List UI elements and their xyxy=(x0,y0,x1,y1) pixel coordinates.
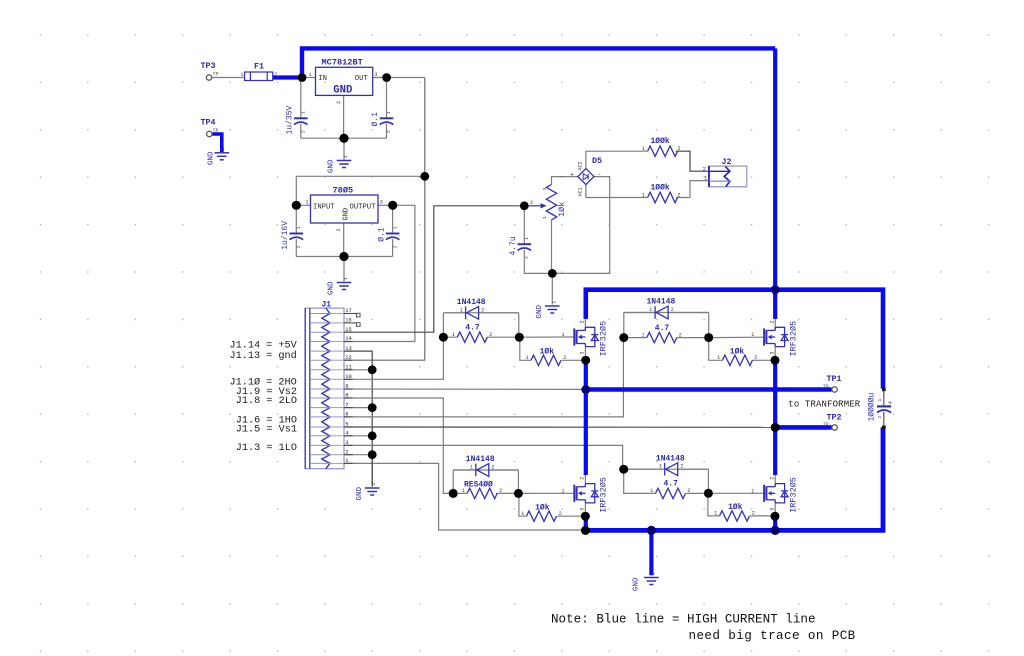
wire blue rail2 junction down to Q2 drain xyxy=(773,290,777,319)
svg-text:1: 1 xyxy=(877,399,883,402)
junction node J1 pin11 gnd xyxy=(368,365,377,374)
svg-text:1Øk: 1Øk xyxy=(728,503,743,512)
svg-text:TP1: TP1 xyxy=(827,374,842,384)
svg-text:1: 1 xyxy=(343,277,349,280)
svg-text:2: 2 xyxy=(392,245,398,248)
svg-text:12: 12 xyxy=(345,355,351,361)
wire lower-right network right vertical xyxy=(707,469,709,493)
wire lower-left network left vertical xyxy=(452,470,454,493)
connector J1 pin17 no-connect marker xyxy=(353,313,357,315)
note text xyxy=(551,613,856,644)
svg-text:10: 10 xyxy=(345,374,351,380)
svg-text:2: 2 xyxy=(481,307,484,313)
junction node MC7812 OUT / C2 xyxy=(382,73,391,82)
svg-text:14: 14 xyxy=(345,336,351,342)
resistor RES400 (lower-left) xyxy=(462,480,502,498)
wire 7805 GND pin2 xyxy=(343,223,345,257)
svg-text:1: 1 xyxy=(642,192,645,198)
wire J1 pin4 gnd stub xyxy=(344,435,372,437)
svg-text:1Øk: 1Øk xyxy=(535,503,550,512)
svg-text:1N4148: 1N4148 xyxy=(656,454,685,463)
wire C1 bottom leg xyxy=(300,124,302,138)
svg-text:1: 1 xyxy=(704,176,707,182)
svg-text:GND: GND xyxy=(633,577,641,591)
svg-text:2: 2 xyxy=(580,477,586,480)
junction node TP2 / Vs1 xyxy=(771,423,780,432)
diode D? 1N4148 (upper-right) xyxy=(647,298,676,319)
svg-text:2: 2 xyxy=(301,130,307,133)
svg-text:1: 1 xyxy=(306,200,309,206)
junction node 7805 input / C3 xyxy=(292,201,301,210)
svg-text:1: 1 xyxy=(343,155,349,158)
svg-text:2: 2 xyxy=(703,167,706,173)
svg-text:TP4: TP4 xyxy=(201,118,216,128)
junction node lower-left network right / Q3 gate xyxy=(514,489,523,498)
svg-text:3: 3 xyxy=(769,508,775,511)
wire lower-left network top rail xyxy=(453,469,518,471)
svg-text:1N4148: 1N4148 xyxy=(466,455,495,464)
transistor Q4 IRF3205 (lower-right) xyxy=(751,477,798,513)
resistor 10k (lower-left gate) xyxy=(521,503,562,521)
wire blue Q4 source to ground bus xyxy=(773,514,777,530)
svg-text:2: 2 xyxy=(386,130,392,133)
junction node J1 pin7 gnd xyxy=(368,403,377,412)
svg-text:2: 2 xyxy=(769,477,775,480)
wire J1 pin6 1HO to upper-right gate network xyxy=(344,340,623,417)
svg-text:17: 17 xyxy=(345,308,351,314)
svg-text:IN: IN xyxy=(318,75,327,83)
svg-text:2: 2 xyxy=(752,511,755,517)
potentiometer 10k xyxy=(529,184,567,219)
svg-text:J1.3 = 1LO: J1.3 = 1LO xyxy=(236,443,297,454)
svg-text:2: 2 xyxy=(524,256,530,259)
regulator U? MC7812BT xyxy=(309,58,378,105)
wire 100k R2 pin2 to J2 pin1 xyxy=(676,181,709,198)
svg-text:Note: Blue line = HIGH CURRENT: Note: Blue line = HIGH CURRENT line xyxy=(551,613,816,627)
svg-text:3: 3 xyxy=(375,72,378,78)
pin node 10000u cap pin2 xyxy=(882,426,886,430)
wire D5 minus vertex right then down to gnd node xyxy=(552,177,609,274)
svg-text:1: 1 xyxy=(542,216,548,219)
fuse F1 xyxy=(241,62,278,81)
svg-text:TP: TP xyxy=(823,422,829,428)
svg-text:1: 1 xyxy=(650,572,656,575)
junction node MC7812 gnd rail xyxy=(339,134,348,143)
svg-text:+: + xyxy=(888,400,892,408)
svg-text:2: 2 xyxy=(671,307,674,313)
connector J1 pin 13 xyxy=(310,346,353,352)
junction node lower-left network left xyxy=(449,489,458,498)
svg-text:2: 2 xyxy=(877,416,883,419)
svg-text:1: 1 xyxy=(371,483,377,486)
wire upper-left R 4.7 leads xyxy=(443,336,519,338)
connector J2 xyxy=(703,157,747,187)
wire blue ground bus stub down to power ground xyxy=(649,530,653,575)
wire lower-right network left vertical down to resistor xyxy=(624,469,656,493)
wire blue ground bus xyxy=(584,427,884,530)
wire Q2 source stub xyxy=(774,347,776,358)
wire blue TP4 to ground xyxy=(212,134,222,152)
wire J1 pin2 gnd stub xyxy=(344,454,372,456)
svg-text:+: + xyxy=(570,172,574,179)
svg-text:15: 15 xyxy=(345,327,351,333)
wire blue left bridge midpoint down to Q3 drain xyxy=(584,390,588,476)
svg-text:1Øk: 1Øk xyxy=(730,348,745,357)
wire Q4 drain stub xyxy=(774,475,776,487)
svg-text:1: 1 xyxy=(551,301,557,304)
svg-text:1: 1 xyxy=(460,307,463,313)
resistor 4.7 (upper-left) xyxy=(452,324,492,343)
svg-text:1: 1 xyxy=(562,488,565,494)
wire J1 pin10 2HO to upper-left gate network xyxy=(344,337,443,379)
wire upper-right network right vertical xyxy=(708,313,710,338)
wire J1 pin1 to power ground bus xyxy=(344,463,582,530)
svg-text:2: 2 xyxy=(754,355,757,361)
svg-text:4.7: 4.7 xyxy=(655,324,670,333)
svg-text:2: 2 xyxy=(274,72,277,78)
svg-text:1: 1 xyxy=(296,226,302,229)
wire upper-left 10k leads xyxy=(520,337,583,360)
diode D? 1N4148 (lower-left) xyxy=(466,455,495,476)
svg-text:MC7812BT: MC7812BT xyxy=(322,58,363,68)
svg-text:IRF32Ø5: IRF32Ø5 xyxy=(788,477,798,513)
resistor 100k (upper) xyxy=(642,137,681,156)
wire blue right bridge midpoint Q2 source to TP2 node xyxy=(773,357,777,428)
wire lower-right R 4.7 pin2 lead xyxy=(686,492,708,494)
diode D? 1N4148 (lower-right) xyxy=(656,454,685,475)
svg-text:78Ø5: 78Ø5 xyxy=(333,186,354,196)
svg-text:Ø.1: Ø.1 xyxy=(371,112,380,127)
junction node TP1 / Vs2 xyxy=(581,385,590,394)
svg-text:3: 3 xyxy=(769,351,775,354)
wire upper-right network left vertical xyxy=(623,313,625,338)
svg-text:2: 2 xyxy=(563,355,566,361)
svg-text:13: 13 xyxy=(345,346,351,352)
svg-text:2: 2 xyxy=(678,146,681,152)
junction node lower-right network right / Q4 gate xyxy=(704,489,713,498)
connector J1 pin 4 xyxy=(310,431,353,437)
wire lower-left 10k leads xyxy=(519,493,583,516)
wire pot wiper node to 4.7u cap top xyxy=(523,206,525,244)
svg-text:J1.13 = gnd: J1.13 = gnd xyxy=(230,350,297,362)
svg-text:1: 1 xyxy=(650,488,653,494)
capacitor C? 1u/16V xyxy=(281,221,303,250)
resistor 4.7 (upper-right) xyxy=(642,324,682,343)
svg-text:11: 11 xyxy=(345,365,351,371)
svg-text:1: 1 xyxy=(521,511,524,517)
svg-text:TP2: TP2 xyxy=(827,413,842,423)
svg-text:1: 1 xyxy=(524,237,530,240)
junction node Q4 source / 10k xyxy=(771,512,780,521)
junction node rail2 / Q2 drain xyxy=(771,285,780,294)
wire 100k R1 pin2 to J2 pin2 xyxy=(676,151,709,171)
svg-text:2: 2 xyxy=(580,320,586,323)
capacitor C? 0.1 (5V output) xyxy=(377,226,399,248)
resistor 10k (upper-left gate) xyxy=(526,348,567,366)
junction node Q1 source / 10k xyxy=(581,356,590,365)
svg-text:1: 1 xyxy=(649,307,652,313)
wire D5 AC1 bottom vertex to 100k R2 xyxy=(586,185,648,198)
capacitor C? 1u/35V xyxy=(286,105,308,134)
svg-text:need big trace on PCB: need big trace on PCB xyxy=(689,629,856,643)
svg-text:1ØØk: 1ØØk xyxy=(651,183,670,192)
diode D? 1N4148 (upper-left) xyxy=(457,298,486,319)
wire Q3 drain stub xyxy=(584,475,586,487)
resistor 10k (upper-right gate) xyxy=(717,348,757,366)
svg-text:3: 3 xyxy=(580,351,586,354)
wire J1 pin5 Vs1 to right bridge midpoint xyxy=(344,426,772,428)
connector J1 pin 5 xyxy=(310,422,353,428)
wire J1 pin3 1LO to lower-right gate network xyxy=(344,445,623,466)
svg-text:-: - xyxy=(598,172,602,179)
svg-text:1Øk: 1Øk xyxy=(540,348,555,357)
connector J1 pin 2 xyxy=(310,449,353,455)
connector J1 pin 7 xyxy=(310,402,353,408)
svg-text:1ØØk: 1ØØk xyxy=(651,137,670,146)
wire upper-right R 4.7 leads xyxy=(624,337,709,339)
transistor Q2 IRF3205 (upper-right) xyxy=(751,320,798,356)
wire lower-right node to Q4 gate xyxy=(708,492,763,494)
wire 7805 input node up and right to 12V node xyxy=(296,176,425,205)
connector J1 pin 16 xyxy=(310,318,353,324)
junction node ground bus / gnd stub xyxy=(647,526,656,535)
wire C3 1u/16V top leg xyxy=(295,205,297,233)
regulator U? 7805 xyxy=(306,186,383,232)
svg-text:J1.8 = 2LO: J1.8 = 2LO xyxy=(236,396,297,407)
svg-text:TP: TP xyxy=(823,384,829,390)
svg-text:GND: GND xyxy=(343,208,351,221)
svg-text:1: 1 xyxy=(241,72,244,78)
wire upper-right diode leads xyxy=(624,312,709,314)
wire blue right drain feed down to rail2 junction xyxy=(773,48,777,289)
transistor Q3 IRF3205 (lower-left) xyxy=(562,477,609,513)
connector J1 pin 9 xyxy=(310,384,353,390)
connector J1 pin 6 xyxy=(310,412,353,418)
wire MC7812 gnd stub to ground xyxy=(343,138,345,160)
svg-text:5: 5 xyxy=(345,422,348,428)
wire 12V vertical MC7812 OUT down to 7805 input node xyxy=(424,78,426,177)
svg-text:1u/35V: 1u/35V xyxy=(286,105,295,134)
wire Q2 drain stub xyxy=(774,319,776,331)
svg-text:1: 1 xyxy=(309,72,312,78)
svg-text:1: 1 xyxy=(462,488,465,494)
svg-text:16: 16 xyxy=(345,318,351,324)
wire 10000u cap top thin leg xyxy=(883,389,885,405)
ground for TP4 xyxy=(207,148,229,165)
junction node pot wiper / 4.7u xyxy=(520,201,529,210)
svg-text:1: 1 xyxy=(345,458,348,464)
wire F1 junction to MC7812 IN xyxy=(302,77,316,79)
wire lower-left network right vertical xyxy=(517,470,519,493)
svg-text:AC1: AC1 xyxy=(578,187,584,196)
wire J1 pin13 to ground bus xyxy=(344,351,372,486)
connector J1 pin 17 xyxy=(310,308,353,314)
svg-text:1: 1 xyxy=(642,332,645,338)
svg-text:IRF32Ø5: IRF32Ø5 xyxy=(599,477,609,513)
svg-text:1: 1 xyxy=(642,146,645,152)
svg-text:1: 1 xyxy=(659,464,662,470)
connector J1 pin 3 xyxy=(310,440,353,446)
wire C1 1u/35V top leg xyxy=(300,78,302,119)
transistor Q1 IRF3205 (upper-left) xyxy=(562,320,609,356)
wire blue left bridge midpoint Q1 source to TP1 node xyxy=(584,357,588,390)
wire blue TP2 line xyxy=(775,425,831,430)
ground below potentiometer xyxy=(536,301,560,319)
ground below 7805 xyxy=(328,277,352,295)
wire upper-left network left vertical xyxy=(442,313,444,337)
wire J1 pin15 to potentiometer wiper node xyxy=(344,206,520,332)
wire C4 0.1 top leg xyxy=(392,205,394,233)
wire J1 pin7 gnd stub xyxy=(344,407,372,409)
connector J1 pin 15 xyxy=(310,327,353,333)
wire J1 pin9 Vs2 to left bridge midpoint xyxy=(344,388,583,390)
junction node Q2 source / 10k xyxy=(771,356,780,365)
wire upper-right 10k leads xyxy=(709,338,772,361)
svg-text:F1: F1 xyxy=(254,62,264,72)
wire blue right bridge midpoint down to Q4 drain xyxy=(773,427,777,475)
test point TP4 xyxy=(201,118,219,137)
svg-text:2: 2 xyxy=(530,200,533,206)
svg-text:1: 1 xyxy=(526,355,529,361)
J1 pin assignment labels xyxy=(230,340,298,454)
wire J1 pin8 2LO down and to lower-left gate network xyxy=(344,398,450,493)
svg-text:RES4ØØ: RES4ØØ xyxy=(464,480,493,489)
connector J1 pin 8 xyxy=(310,393,353,399)
connector J1 pin 11 xyxy=(310,365,353,371)
svg-text:4.7u: 4.7u xyxy=(509,236,518,255)
junction node F1 output / C1 / MC7812 IN xyxy=(298,73,307,82)
svg-text:1: 1 xyxy=(392,226,398,229)
wire 12V vertical down to J1 pin12 xyxy=(344,176,425,360)
svg-text:1: 1 xyxy=(386,111,392,114)
wire C4 bottom leg xyxy=(392,239,394,256)
junction node J1 pin4 gnd xyxy=(368,431,377,440)
wire blue top 12V-in rail xyxy=(302,48,775,79)
svg-text:4: 4 xyxy=(345,431,348,437)
wire lower-right network top rail xyxy=(624,468,709,470)
svg-text:2: 2 xyxy=(296,245,302,248)
svg-text:2: 2 xyxy=(769,320,775,323)
svg-text:9: 9 xyxy=(345,384,348,390)
wire Q1 source stub xyxy=(584,347,586,358)
connector J1 zigzag pin column xyxy=(322,308,330,469)
svg-text:1: 1 xyxy=(714,511,717,517)
ground below power bus xyxy=(633,572,659,591)
svg-text:OUTPUT: OUTPUT xyxy=(350,203,377,211)
svg-text:1: 1 xyxy=(220,148,226,151)
wire gnd node to pot ground xyxy=(551,273,553,304)
svg-text:4.7: 4.7 xyxy=(664,480,679,489)
wire upper-right network top rail xyxy=(624,312,709,314)
wire pot bottom pin1 down to gnd node xyxy=(551,220,553,274)
junction node upper-right network left xyxy=(619,333,628,342)
wire upper-right node to Q2 gate xyxy=(709,336,764,338)
wire blue Q3 source to ground bus xyxy=(584,514,588,530)
svg-text:3: 3 xyxy=(542,188,548,191)
junction node Q3 source / 10k xyxy=(581,512,590,521)
ground below MC7812 xyxy=(328,155,352,173)
junction node upper-right network right / Q2 gate xyxy=(704,333,713,342)
wire 7805 output to node xyxy=(378,204,393,206)
svg-text:1u/16V: 1u/16V xyxy=(281,221,290,250)
connector J1 pin 10 xyxy=(310,374,353,380)
svg-text:TP3: TP3 xyxy=(201,61,216,71)
connector J1 xyxy=(305,300,360,468)
connector J1 pin 14 xyxy=(310,336,353,342)
svg-text:1: 1 xyxy=(470,465,473,471)
wire blue second rail to 10000u cap branch xyxy=(586,290,883,389)
junction node 12V to 7805 input xyxy=(420,172,429,181)
wire Q4 source stub xyxy=(774,503,776,514)
svg-text:1: 1 xyxy=(562,332,565,338)
capacitor 4.7u xyxy=(509,236,531,259)
resistor 4.7 (lower-right) xyxy=(650,480,690,499)
svg-text:2: 2 xyxy=(559,511,562,517)
wire lower-left RES400 leads xyxy=(453,492,518,494)
wire 7805 gnd stub to ground xyxy=(343,257,345,282)
wire J1 gnd bus stub to ground xyxy=(371,455,373,487)
junction node pot bottom / 4.7u / D5 minus / gnd xyxy=(548,269,557,278)
svg-text:3: 3 xyxy=(345,440,348,446)
junction node lower-right network left xyxy=(619,465,628,474)
svg-text:7: 7 xyxy=(345,402,348,408)
svg-text:1: 1 xyxy=(452,332,455,338)
ground below J1 xyxy=(356,483,380,501)
wire C2 bottom leg xyxy=(386,124,388,138)
svg-text:AC2: AC2 xyxy=(578,161,584,170)
wire 7805 input xyxy=(296,204,310,206)
junction node 7805 gnd rail xyxy=(339,252,348,261)
bridge rectifier D5 xyxy=(570,156,602,197)
svg-text:1: 1 xyxy=(751,332,754,338)
svg-text:1: 1 xyxy=(301,111,307,114)
wire blue F1 output to input junction xyxy=(273,75,302,79)
wire 10000u cap bottom thin leg xyxy=(883,412,885,427)
junction node ground bus / Q4 source xyxy=(771,526,780,535)
connector J1 pin16 no-connect marker xyxy=(353,322,357,324)
svg-text:3: 3 xyxy=(580,508,586,511)
junction node 7805 output / C4 xyxy=(388,201,397,210)
svg-text:2: 2 xyxy=(688,488,691,494)
wire Q3 source stub xyxy=(584,503,586,514)
svg-text:3: 3 xyxy=(380,200,383,206)
svg-text:Ø.1: Ø.1 xyxy=(377,227,386,242)
svg-text:8: 8 xyxy=(345,393,348,399)
svg-text:1N4148: 1N4148 xyxy=(647,298,676,307)
svg-text:TP: TP xyxy=(213,72,219,78)
wire lower-right diode leads xyxy=(624,468,709,470)
junction node J1 pin2 gnd xyxy=(368,450,377,459)
svg-text:1: 1 xyxy=(717,355,720,361)
capacitor C? 0.1 (12V output) xyxy=(371,111,393,133)
svg-text:J1.14 = +5V: J1.14 = +5V xyxy=(230,340,298,351)
wire 7805 gnd rail horizontal xyxy=(296,256,392,258)
wire lower-right 10k leads xyxy=(708,493,772,516)
svg-text:2: 2 xyxy=(336,228,342,231)
test point TP3 xyxy=(201,61,219,80)
svg-text:1Øk: 1Øk xyxy=(557,202,567,217)
wire upper-left network right vertical xyxy=(518,313,520,337)
svg-text:GND: GND xyxy=(207,151,215,165)
svg-text:IRF32Ø5: IRF32Ø5 xyxy=(788,321,798,357)
wire 4.7u cap bottom leg xyxy=(524,250,552,273)
connector J1 pin 1 xyxy=(310,458,353,464)
svg-text:J1.5 = Vs1: J1.5 = Vs1 xyxy=(236,425,297,436)
wire Q1 drain stub xyxy=(584,319,586,331)
junction node upper-left network right / Q1 gate xyxy=(515,333,524,342)
svg-text:6: 6 xyxy=(345,412,348,418)
wire upper-left diode leads xyxy=(443,312,518,314)
